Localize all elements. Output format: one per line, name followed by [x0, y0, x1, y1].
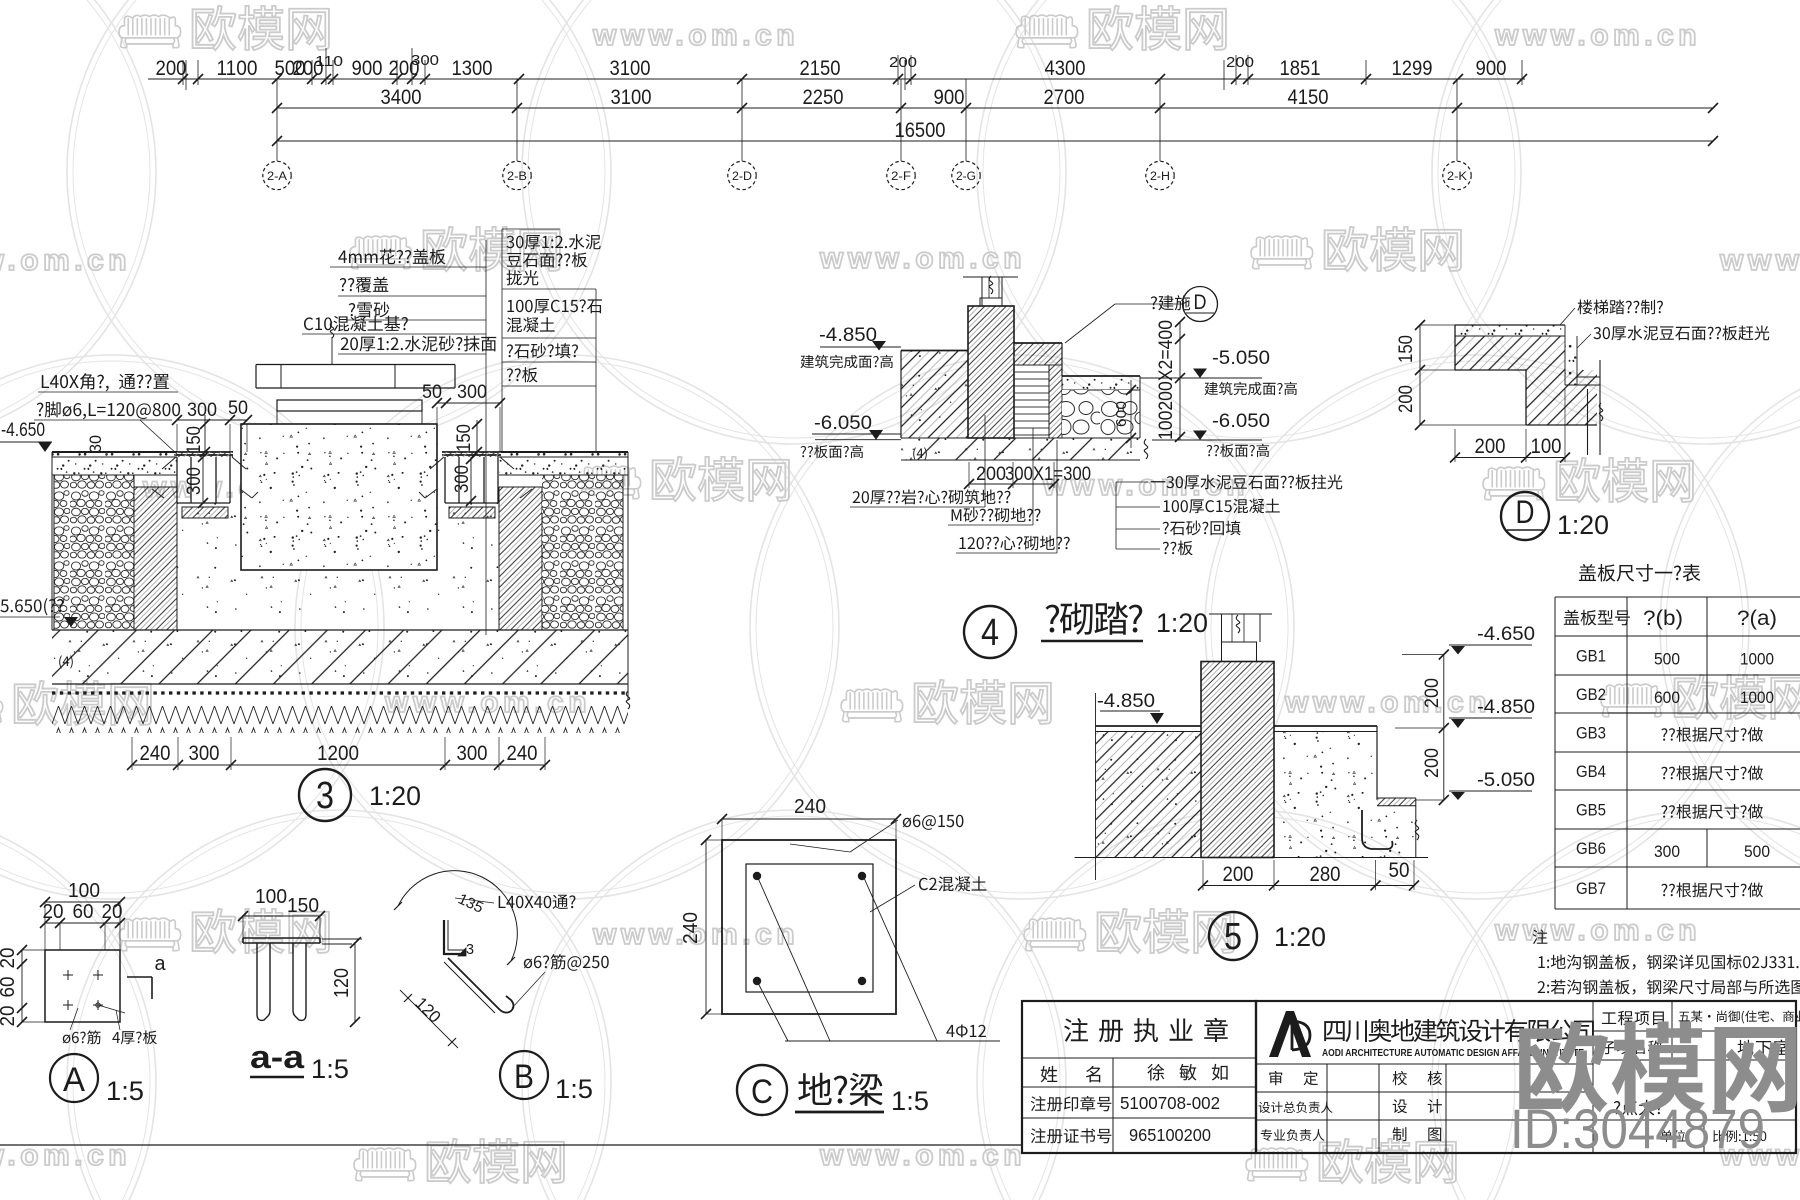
svg-text:3400: 3400: [381, 86, 422, 109]
table header: [1564, 610, 1630, 626]
detail 3 right channel: [459, 457, 484, 503]
svg-text:www.om.cn: www.om.cn: [1719, 244, 1800, 277]
svg-text:100200X2=400: 100200X2=400: [1156, 320, 1177, 440]
svg-text:-4.650: -4.650: [1477, 624, 1535, 645]
detail D lower slab: [1526, 370, 1597, 425]
detail 3 subgrade zigzag band: [52, 706, 628, 733]
svg-text:GB2: GB2: [1576, 686, 1606, 704]
svg-text:-5.050: -5.050: [1477, 770, 1535, 791]
detail 3 channel cover hatch strips: [174, 452, 233, 457]
detail C stirrup: [746, 864, 873, 992]
svg-text:1:5: 1:5: [311, 1054, 349, 1084]
svg-text:50: 50: [1389, 859, 1410, 882]
watermark arc pattern: [0, 0, 156, 444]
svg-text:?(b): ?(b): [1643, 607, 1683, 630]
svg-text:GB4: GB4: [1576, 763, 1606, 781]
svg-text:2-K: 2-K: [1447, 171, 1467, 183]
detail 3 foundation fill: [177, 503, 499, 630]
detail 4 chimney: [963, 276, 1018, 278]
svg-text:www.om.cn: www.om.cn: [1284, 686, 1491, 719]
detail 4 masonry infill: [1014, 365, 1049, 438]
svg-text:20: 20: [43, 901, 64, 923]
svg-text:3100: 3100: [611, 86, 652, 109]
detail 5 lower right step: [1377, 806, 1416, 858]
detail 3 leader ladder labels: [338, 249, 445, 265]
grid lines: [276, 79, 278, 161]
detail 3 concrete duct block: [241, 424, 437, 570]
svg-text:900: 900: [1476, 57, 1507, 80]
svg-text:50: 50: [228, 398, 248, 419]
detail A leaders: [63, 1030, 101, 1044]
svg-text:-6.050: -6.050: [1212, 411, 1270, 432]
svg-text:100: 100: [68, 880, 100, 902]
detail 3 leader vertical: [485, 240, 487, 635]
svg-text:D: D: [1194, 291, 1207, 314]
detail 3 hatch column right: [499, 487, 542, 630]
detail 3 waterproof dotted line: [52, 691, 628, 694]
detail 4 bottom dim 200 300X1=300: [969, 483, 1054, 485]
svg-text:500: 500: [1744, 843, 1770, 861]
svg-text:-4.850: -4.850: [1097, 691, 1155, 712]
svg-text:ID:3044879: ID:3044879: [1510, 1097, 1765, 1160]
svg-text:100: 100: [255, 886, 287, 908]
detail 5 pier: [1201, 662, 1274, 858]
svg-text:3: 3: [316, 775, 334, 817]
top dimension chain row 1: [148, 78, 1525, 80]
detail 4 hatch strip: [1049, 365, 1062, 438]
big gray watermark 欧模网 ID:3044879: [1519, 1021, 1797, 1113]
svg-text:200: 200: [156, 57, 187, 80]
svg-text:D: D: [1516, 494, 1535, 530]
svg-text:120: 120: [331, 968, 353, 998]
detail 3 title bubble: [299, 769, 351, 821]
svg-text:2700: 2700: [1044, 86, 1085, 109]
bottom frame line: [0, 1144, 1022, 1146]
detail 4 left mass: [901, 351, 968, 439]
detail D upper slab: [1455, 336, 1565, 370]
svg-text:2-D: 2-D: [732, 171, 752, 183]
svg-text:200: 200: [1396, 385, 1417, 413]
svg-text:4150: 4150: [1288, 86, 1329, 109]
svg-text:www.om.cn: www.om.cn: [819, 1139, 1026, 1172]
detail 5 chimney: [1209, 613, 1272, 615]
detail 3 floor slab left: [52, 452, 177, 475]
svg-text:3: 3: [466, 941, 474, 958]
svg-text:240: 240: [794, 796, 826, 818]
svg-text:150: 150: [454, 424, 475, 452]
svg-text:1100: 1100: [217, 57, 258, 80]
svg-text:GB5: GB5: [1576, 802, 1606, 820]
svg-text:3100: 3100: [610, 57, 651, 80]
svg-text:1:20: 1:20: [1156, 608, 1208, 638]
detail 3 dim 50/300 above right channel: [437, 402, 500, 404]
detail 5 left slab: [1096, 732, 1202, 858]
detail 4 bottom foundation band: [901, 438, 1140, 460]
svg-text:16500: 16500: [895, 119, 946, 142]
svg-text:600: 600: [1113, 401, 1130, 427]
detail 3 dim 150 vertical left: [204, 415, 206, 452]
svg-text:GB6: GB6: [1576, 840, 1606, 858]
svg-text:A: A: [63, 1061, 85, 1099]
detail 3 dim 30 small: [86, 435, 105, 453]
svg-text:2-A: 2-A: [267, 171, 287, 183]
detail 4 vertical dim 100 200X2=400: [1179, 322, 1181, 440]
detail D edge speckle strip: [1565, 336, 1577, 385]
svg-text:240: 240: [507, 742, 538, 765]
svg-text:965100200: 965100200: [1129, 1125, 1211, 1145]
detail C rebar leaders: [758, 878, 830, 1041]
svg-text:2150: 2150: [800, 57, 841, 80]
detail B dim 120: [400, 990, 458, 1048]
svg-text:900: 900: [352, 57, 383, 80]
svg-text:240: 240: [680, 912, 702, 944]
detail B diagonal bar with hook: [448, 958, 514, 1013]
svg-text:1200: 1200: [317, 742, 359, 765]
svg-text:150: 150: [287, 895, 319, 917]
svg-text:1:20: 1:20: [1557, 510, 1609, 540]
svg-text:300: 300: [457, 742, 488, 765]
svg-text:600: 600: [1654, 689, 1680, 707]
detail B angle L: [444, 920, 466, 954]
detail 3 right material list box: [501, 229, 503, 451]
svg-text:5100708-002: 5100708-002: [1120, 1093, 1220, 1113]
detail 3 block bottom line: [241, 569, 437, 571]
svg-text:1:20: 1:20: [369, 781, 421, 811]
detail 3 hatch column left: [134, 487, 177, 630]
svg-text:-4.850: -4.850: [1477, 697, 1535, 718]
svg-text:1:20: 1:20: [1274, 922, 1326, 952]
detail 5 right concrete mass: [1274, 732, 1377, 858]
svg-text:110: 110: [315, 53, 343, 70]
svg-text:240: 240: [140, 742, 171, 765]
detail D wall lines: [1599, 360, 1601, 455]
svg-text:200: 200: [1475, 435, 1506, 458]
detail 4 gravel fill: [1062, 390, 1140, 438]
detail 3 cover plate stack: [256, 364, 455, 366]
svg-text:300: 300: [187, 400, 217, 421]
detail 3 floor slab right: [499, 452, 628, 475]
grid bubbles 2-A..2-K: [263, 161, 291, 189]
detail 3 left channel plinth: [182, 507, 228, 518]
svg-text:200: 200: [1422, 678, 1443, 708]
detail 3 right channel plinth: [449, 507, 495, 518]
svg-text:B: B: [514, 1058, 534, 1096]
svg-text:200: 200: [1223, 863, 1254, 886]
detail 5 title bubble: [1209, 912, 1257, 960]
drawing name and scale: [1614, 1100, 1663, 1116]
detail 4 leader texts left: [853, 489, 1011, 504]
svg-text:60: 60: [73, 901, 94, 923]
svg-text:200: 200: [1226, 54, 1254, 71]
svg-text:2-H: 2-H: [1150, 171, 1170, 183]
svg-text:30: 30: [86, 435, 105, 453]
detail 3 gravel column left: [54, 475, 134, 630]
svg-text:2-F: 2-F: [891, 171, 911, 183]
svg-text:300: 300: [184, 467, 205, 495]
svg-text:www.om.cn: www.om.cn: [1494, 914, 1701, 947]
detail C label C2 concrete: [919, 876, 986, 891]
detail 4 step3 slab band: [1062, 376, 1140, 390]
svg-text:20: 20: [102, 901, 123, 923]
detail A bubble: [50, 1054, 98, 1102]
svg-text:4: 4: [981, 612, 999, 654]
detail 4 step2 block: [1014, 343, 1062, 365]
registration stamp block: [1022, 1001, 1256, 1153]
svg-text:-4.650: -4.650: [1, 420, 45, 441]
svg-text:www.om.cn: www.om.cn: [0, 1139, 131, 1172]
svg-text:a-a: a-a: [250, 1039, 304, 1075]
detail B labels: [499, 895, 576, 909]
svg-text:200: 200: [976, 464, 1006, 485]
svg-text:300: 300: [457, 382, 487, 403]
detail 5 right vertical dim: [1443, 655, 1445, 801]
svg-text:300X1=300: 300X1=300: [1005, 464, 1091, 485]
detail 3 gravel column right: [542, 475, 623, 630]
svg-text:20: 20: [0, 1006, 19, 1027]
svg-text:www.om.cn: www.om.cn: [0, 244, 131, 277]
svg-text:4300: 4300: [1045, 57, 1086, 80]
signature rows: [1269, 1071, 1282, 1085]
svg-text:-5.050: -5.050: [1212, 348, 1270, 369]
svg-text:300: 300: [189, 742, 220, 765]
project fields: [1602, 1011, 1664, 1025]
detail 3 channel seat diagonals: [162, 457, 176, 469]
detail a-a right flange: [322, 938, 362, 940]
watermark logos and urls: [119, 15, 181, 48]
svg-text:-4.850: -4.850: [819, 325, 877, 346]
detail 5 bottom line: [1075, 857, 1429, 859]
svg-text:200: 200: [889, 54, 917, 71]
svg-text:20: 20: [0, 948, 19, 969]
detail C label phi6: [903, 815, 964, 830]
detail 3 slope arrows: [240, 489, 252, 498]
svg-text:a: a: [155, 953, 167, 975]
svg-text:150: 150: [1396, 335, 1417, 363]
detail 3 left labels: [42, 373, 169, 391]
svg-text:GB3: GB3: [1576, 725, 1606, 743]
detail a-a channel section: [243, 937, 320, 939]
detail 5 steel angle hook: [1362, 810, 1393, 849]
detail a-a legs: [257, 943, 270, 1020]
detail 4 title bubble and name: [964, 606, 1016, 658]
detail 3 dim 300 in left channel: [202, 457, 204, 503]
detail 3 left boundary: [51, 452, 53, 630]
svg-text:www.om.cn: www.om.cn: [592, 19, 799, 52]
detail B arc: [398, 871, 517, 961]
company logo AD: [1269, 1011, 1311, 1057]
detail 4 vertical dim 600 inner: [1130, 380, 1132, 448]
detail 3 mark (4): [59, 655, 73, 668]
detail 5 bottom dims: [1203, 885, 1414, 887]
svg-text:2250: 2250: [803, 86, 844, 109]
detail A anchor plate plan: [45, 950, 120, 1022]
svg-text:200: 200: [1422, 748, 1443, 778]
detail 3 bottom dimensions: [132, 764, 545, 766]
detail 4 leader list right: [1115, 482, 1117, 549]
detail 3 dim 300 in right channel: [470, 457, 472, 503]
detail 3 left channel: [191, 457, 216, 503]
svg-text:C: C: [751, 1073, 773, 1111]
company name: [1324, 1019, 1594, 1042]
svg-text:60: 60: [0, 977, 19, 998]
svg-text:1:5: 1:5: [555, 1074, 593, 1104]
detail 3 bottom foundation band: [52, 630, 628, 684]
svg-text:150: 150: [184, 426, 205, 454]
svg-text:1000: 1000: [1740, 689, 1774, 707]
svg-text:GB7: GB7: [1576, 880, 1606, 898]
detail D left vertical dims: [1419, 325, 1421, 425]
top dimension chain row 2: [277, 107, 1713, 109]
svg-text:2-G: 2-G: [956, 171, 976, 183]
svg-text:www.om.cn: www.om.cn: [1494, 19, 1701, 52]
detail B bubble: [500, 1051, 548, 1099]
detail 3 right boundary: [627, 452, 629, 700]
cover plate size table: [1579, 564, 1701, 582]
svg-text:1000: 1000: [1740, 651, 1774, 669]
svg-text:1300: 1300: [452, 57, 493, 80]
detail 4 reference bubble D: [1151, 295, 1190, 310]
detail D title bubble: [1501, 492, 1549, 540]
detail C ground beam section: [722, 840, 896, 1014]
svg-text:1851: 1851: [1280, 57, 1321, 80]
svg-text:100: 100: [1531, 435, 1562, 458]
svg-text:280: 280: [1310, 863, 1341, 886]
detail 4 level -5.050 right: [1140, 377, 1262, 379]
svg-text:300: 300: [1654, 843, 1680, 861]
detail D bottom dims: [1455, 457, 1565, 459]
svg-text:900: 900: [934, 86, 965, 109]
detail 4 pier: [968, 306, 1014, 438]
detail 3 dim 300/50 above left channel: [177, 419, 247, 421]
company title block: [1256, 1001, 1796, 1153]
svg-text:1299: 1299: [1392, 57, 1433, 80]
detail D labels: [1578, 300, 1663, 315]
svg-text:50: 50: [422, 382, 442, 403]
svg-text:300: 300: [452, 465, 473, 493]
svg-text:500: 500: [1654, 651, 1680, 669]
detail C bubble and title: [737, 1065, 787, 1115]
svg-text:GB1: GB1: [1576, 648, 1606, 666]
detail 3 level marker 5.650: [0, 598, 63, 615]
svg-text:-6.050: -6.050: [814, 413, 872, 434]
svg-text:5: 5: [1224, 916, 1242, 958]
svg-text:?(a): ?(a): [1737, 607, 1777, 630]
svg-text:1:5: 1:5: [106, 1076, 144, 1106]
svg-text:2-B: 2-B: [507, 171, 527, 183]
detail 3 dim 150 vertical right: [476, 420, 478, 456]
top dimension chain row 3 total 16500: [277, 140, 1713, 142]
svg-text:www.om.cn: www.om.cn: [819, 242, 1026, 275]
detail A left dims: [21, 950, 23, 1022]
svg-text:1:5: 1:5: [891, 1086, 929, 1116]
notes: [1533, 929, 1548, 944]
